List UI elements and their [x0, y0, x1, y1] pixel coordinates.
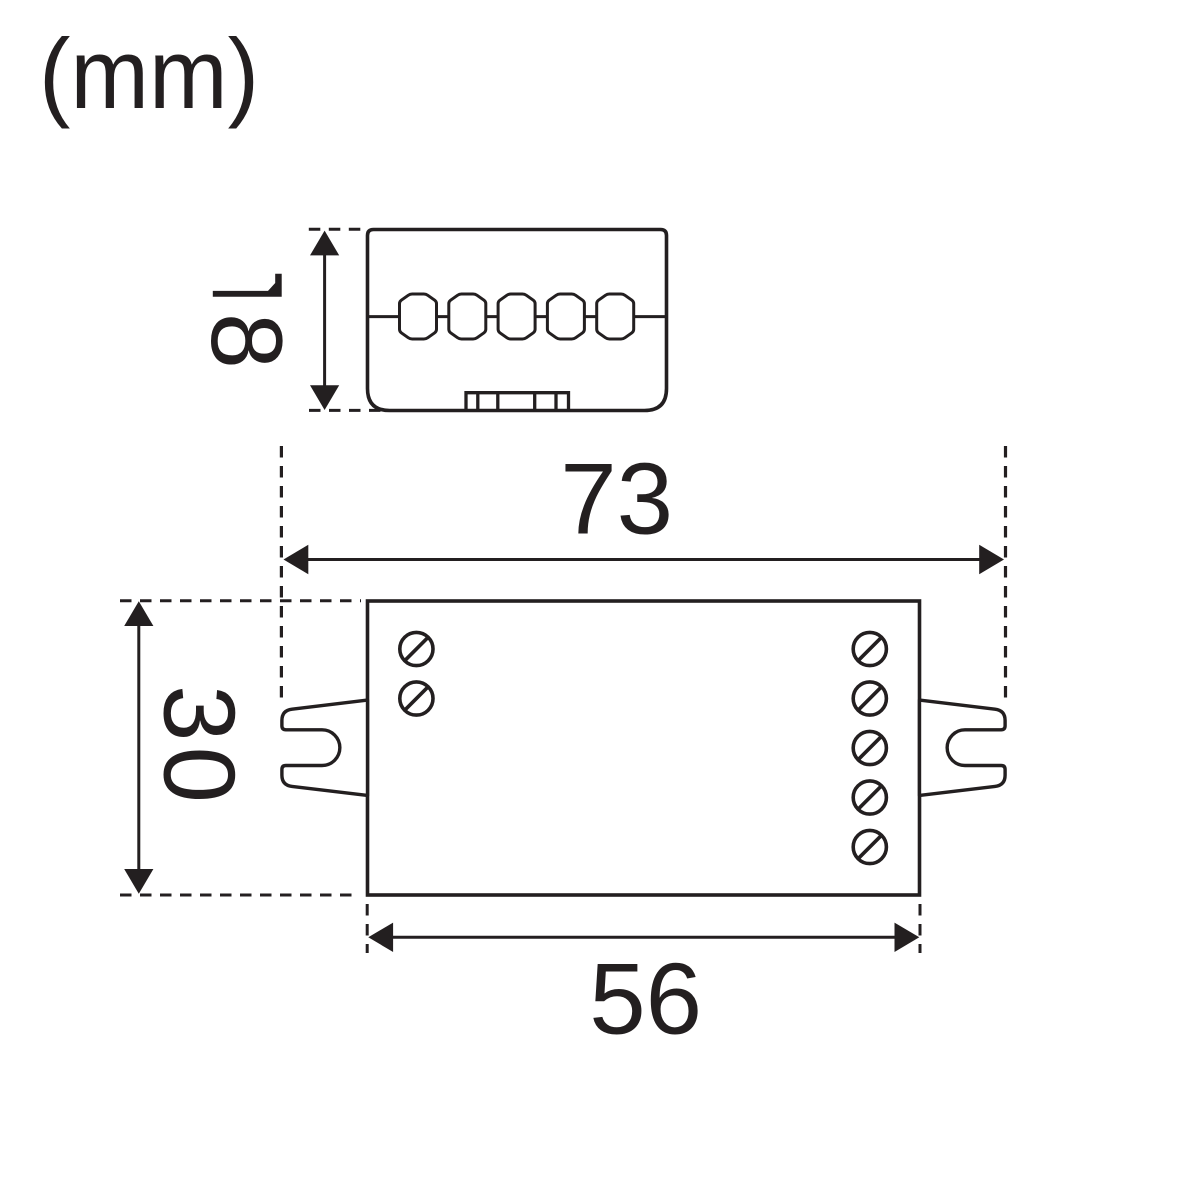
dimension line 18 — [323, 253, 326, 387]
screw top-left 2 — [400, 682, 433, 715]
svg-text:8: 8 — [190, 313, 302, 369]
screw right 5 — [853, 830, 886, 863]
extension dashes 30 bottom — [120, 894, 360, 897]
svg-text:30: 30 — [142, 685, 256, 808]
extension dash 56 right — [919, 904, 922, 953]
screw right 2 — [853, 682, 886, 715]
arrowhead 30 top — [124, 601, 153, 626]
dimension line 30 — [137, 623, 140, 871]
bottom connector strip — [466, 393, 569, 411]
dimension line 56 — [391, 936, 896, 939]
arrowhead 30 bottom — [124, 869, 153, 894]
screw right 3 — [853, 731, 886, 764]
extension dashes side view top — [309, 228, 361, 231]
connector strip divider 2 — [496, 393, 499, 411]
arrowhead 18 top — [310, 231, 339, 256]
extension dash 56 left — [366, 904, 369, 953]
connector strip divider 1 — [476, 393, 479, 411]
arrowhead 73 right — [979, 545, 1004, 574]
terminal barrel 3 — [498, 294, 535, 339]
terminal barrel 4 — [547, 294, 584, 339]
connector strip divider 3 — [533, 393, 536, 411]
svg-text:56: 56 — [589, 942, 702, 1056]
svg-text:73: 73 — [560, 442, 673, 556]
arrowhead 56 right — [895, 923, 920, 952]
svg-text:(mm): (mm) — [39, 18, 259, 129]
dimension line 73 — [306, 558, 982, 561]
left mounting ear — [282, 700, 368, 795]
side view body — [368, 230, 667, 411]
main view body rectangle — [368, 601, 920, 895]
right mounting ear — [920, 700, 1006, 795]
terminal barrel 5 — [597, 294, 634, 339]
arrowhead 73 left — [284, 545, 309, 574]
extension dash line 73 left — [280, 446, 283, 702]
screw right 4 — [853, 781, 886, 814]
side view mid parting line — [368, 315, 667, 318]
arrowhead 56 left — [368, 923, 393, 952]
extension dash line 73 right — [1004, 446, 1007, 702]
terminal barrel 2 — [449, 294, 486, 339]
connector strip divider 4 — [554, 393, 557, 411]
extension dashes 30 top — [120, 599, 361, 602]
extension dashes side view bottom — [309, 409, 382, 412]
terminal barrel 1 — [400, 294, 437, 339]
arrowhead 18 bottom — [310, 385, 339, 410]
dimension text 18 digit 1 — [213, 274, 282, 297]
screw right 1 — [853, 632, 886, 665]
screw top-left 1 — [400, 632, 433, 665]
